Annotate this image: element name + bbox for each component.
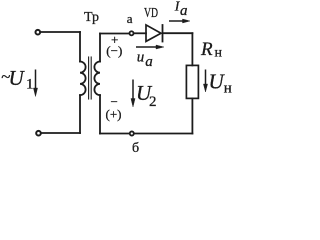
transformer core line right <box>90 57 92 99</box>
transformer T1 secondary winding <box>94 62 100 96</box>
svg-text:а: а <box>145 54 153 70</box>
wire primary top vertical <box>79 32 81 62</box>
svg-text:2: 2 <box>149 94 157 110</box>
wire top-left horizontal <box>41 31 80 33</box>
svg-text:u: u <box>137 50 145 66</box>
svg-text:(−): (−) <box>106 43 122 58</box>
svg-text:R: R <box>200 39 213 60</box>
svg-text:б: б <box>132 141 139 154</box>
arrow voltage U1 <box>33 70 37 97</box>
node b <box>130 131 134 135</box>
resistor RH box <box>186 65 198 98</box>
transformer T1 primary winding <box>80 62 86 96</box>
wire node a to diode <box>134 32 146 34</box>
transformer core line left <box>88 57 90 99</box>
terminal top-left <box>36 30 41 35</box>
svg-text:а: а <box>127 11 133 26</box>
svg-text:U: U <box>9 66 26 90</box>
wire secondary bottom vertical <box>99 95 101 133</box>
svg-text:Тр: Тр <box>84 10 99 25</box>
svg-text:н: н <box>224 81 232 97</box>
wire secondary top vertical <box>99 34 101 62</box>
arrow voltage ua <box>136 45 164 49</box>
svg-text:а: а <box>180 3 188 19</box>
wire diode to corner <box>163 32 192 34</box>
node a <box>129 31 133 35</box>
wire resistor bottom vertical <box>191 98 193 133</box>
wire primary bottom vertical <box>79 95 81 133</box>
arrow current Ia <box>169 19 190 23</box>
diode VD triangle <box>146 25 161 42</box>
wire bottom-left horizontal <box>42 132 80 134</box>
arrow voltage UH <box>203 70 207 93</box>
arrow voltage U2 <box>131 80 135 108</box>
wire secondary top to node a <box>100 33 129 35</box>
terminal bottom-left <box>36 131 41 136</box>
svg-text:1: 1 <box>26 77 34 93</box>
diode VD cathode bar <box>162 25 164 42</box>
wire right vertical down to resistor <box>191 33 193 65</box>
wire bottom horizontal secondary <box>100 133 192 135</box>
svg-text:VD: VD <box>144 6 158 21</box>
svg-text:(+): (+) <box>106 107 122 122</box>
svg-text:н: н <box>215 46 223 61</box>
